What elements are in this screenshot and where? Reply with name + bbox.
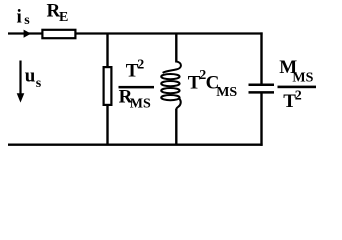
capacitor M_MS/T^2 (plates): [249, 84, 275, 87]
wire: inductor branch, lower segment: [175, 109, 177, 145]
svg-text:MS: MS: [292, 71, 313, 86]
wire: right branch, lower segment: [260, 92, 262, 145]
svg-text:2: 2: [295, 89, 302, 104]
voltage arrow u_s (pointing down): [19, 61, 21, 96]
current arrow head (i_s direction): [24, 30, 31, 38]
resistor R_E: [42, 30, 75, 38]
wire: resistor branch, lower segment: [106, 105, 108, 145]
wire: top-left input lead: [8, 32, 42, 34]
inductor T^2 C_MS (coil): [161, 62, 181, 110]
svg-text:MS: MS: [130, 97, 151, 112]
svg-text:2: 2: [137, 57, 144, 72]
wire: right branch, upper segment: [260, 32, 262, 84]
svg-text:E: E: [59, 10, 68, 25]
svg-text:u: u: [25, 66, 36, 87]
wire: inductor branch, upper segment: [175, 34, 177, 63]
svg-text:s: s: [24, 13, 30, 28]
wire: bottom bus: [8, 143, 263, 145]
wire: resistor branch, upper segment: [106, 34, 108, 68]
svg-text:s: s: [36, 76, 42, 91]
svg-text:i: i: [17, 7, 22, 28]
resistor T^2/R_MS: [104, 67, 112, 105]
svg-text:MS: MS: [216, 85, 237, 100]
wire: top bus: [75, 32, 262, 34]
